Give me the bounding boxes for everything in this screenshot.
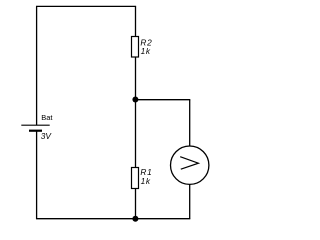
svg-text:3V: 3V: [41, 131, 53, 141]
wire bottom horizontal: [36, 218, 190, 220]
node junction lower: [132, 216, 138, 222]
wire branch horizontal to meter: [136, 99, 191, 101]
svg-text:Bat: Bat: [41, 113, 53, 122]
wire middle vertical: [135, 6, 137, 218]
wire meter bottom lead: [189, 184, 191, 219]
wire left vertical upper (top to battery): [36, 6, 38, 125]
svg-text:1k: 1k: [141, 46, 151, 56]
wire top horizontal: [36, 5, 136, 7]
node junction upper: [132, 97, 138, 103]
battery Bat top plate: [21, 124, 49, 126]
resistor R1: [132, 168, 139, 189]
battery Bat bottom plate: [29, 130, 42, 132]
wire left vertical lower (battery to bottom): [36, 131, 38, 219]
meter U1 (voltmeter circle): [171, 146, 209, 184]
wire meter top lead: [189, 100, 191, 147]
meter arrow mark: [180, 157, 198, 170]
svg-text:1k: 1k: [141, 176, 151, 186]
resistor R2: [132, 37, 139, 58]
